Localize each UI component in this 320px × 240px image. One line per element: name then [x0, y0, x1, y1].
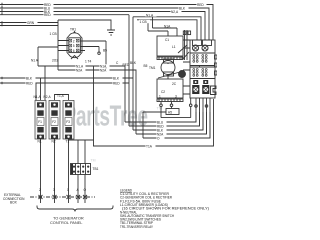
svg-text:B5: B5	[144, 64, 148, 68]
svg-text:RED: RED	[44, 13, 51, 17]
svg-text:1 CB: 1 CB	[50, 32, 57, 36]
svg-text:2: 2	[73, 39, 75, 43]
svg-text:BLK: BLK	[113, 77, 120, 81]
svg-text:N2,A: N2,A	[171, 10, 179, 14]
svg-text:2O3: 2O3	[52, 59, 58, 63]
svg-text:RED: RED	[197, 3, 204, 7]
svg-text:N1,A: N1,A	[34, 95, 42, 99]
svg-text:2C: 2C	[172, 82, 177, 86]
svg-text:C1: C1	[165, 38, 169, 42]
svg-text:6: 6	[73, 49, 75, 53]
svg-text:H5: H5	[168, 111, 172, 115]
svg-text:TM1: TM1	[149, 66, 156, 70]
svg-text:T1,A: T1,A	[57, 94, 65, 98]
svg-text:N1: N1	[38, 140, 42, 144]
svg-text:N1 A: N1 A	[31, 59, 39, 63]
svg-text:1: 1	[67, 188, 69, 192]
svg-text:F1: F1	[38, 120, 42, 124]
svg-text:BOX: BOX	[10, 201, 18, 205]
svg-text:1 CB: 1 CB	[140, 20, 147, 24]
svg-text:TR1-TRANSFER RELAY: TR1-TRANSFER RELAY	[120, 225, 154, 229]
svg-text:PartsTree: PartsTree	[64, 101, 148, 133]
svg-text:TM: TM	[91, 159, 96, 163]
svg-text:B5: B5	[103, 49, 107, 53]
svg-text:F3: F3	[66, 120, 70, 124]
svg-text:GRN: GRN	[27, 21, 35, 25]
svg-text:RED: RED	[26, 82, 33, 86]
svg-text:CONTROL PANEL: CONTROL PANEL	[50, 220, 83, 225]
svg-text:L1: L1	[172, 45, 176, 49]
svg-text:N1,A: N1,A	[146, 14, 154, 18]
svg-text:N1A: N1A	[164, 25, 171, 29]
svg-text:RED: RED	[123, 63, 130, 67]
svg-text:T1: T1	[66, 140, 70, 144]
svg-text:BLK: BLK	[26, 77, 33, 81]
svg-text:2: 2	[39, 188, 41, 192]
svg-text:F2: F2	[52, 120, 56, 124]
svg-text:3: 3	[175, 95, 177, 99]
svg-text:5: 5	[73, 44, 75, 48]
svg-text:N2A: N2A	[100, 69, 107, 73]
svg-text:TB1: TB1	[93, 167, 99, 171]
svg-text:N2A: N2A	[76, 69, 83, 73]
svg-text:T1A: T1A	[146, 145, 153, 149]
svg-text:1 T4: 1 T4	[85, 60, 92, 64]
svg-text:TR1: TR1	[70, 28, 76, 32]
svg-text:RED: RED	[113, 82, 120, 86]
svg-text:N2,A: N2,A	[44, 95, 52, 99]
svg-text:1: 1	[159, 95, 161, 99]
svg-text:C2: C2	[161, 90, 165, 94]
svg-text:3: 3	[53, 188, 55, 192]
svg-text:BLK: BLK	[130, 61, 137, 65]
svg-text:N2: N2	[52, 140, 56, 144]
svg-text:BLK: BLK	[179, 6, 186, 10]
